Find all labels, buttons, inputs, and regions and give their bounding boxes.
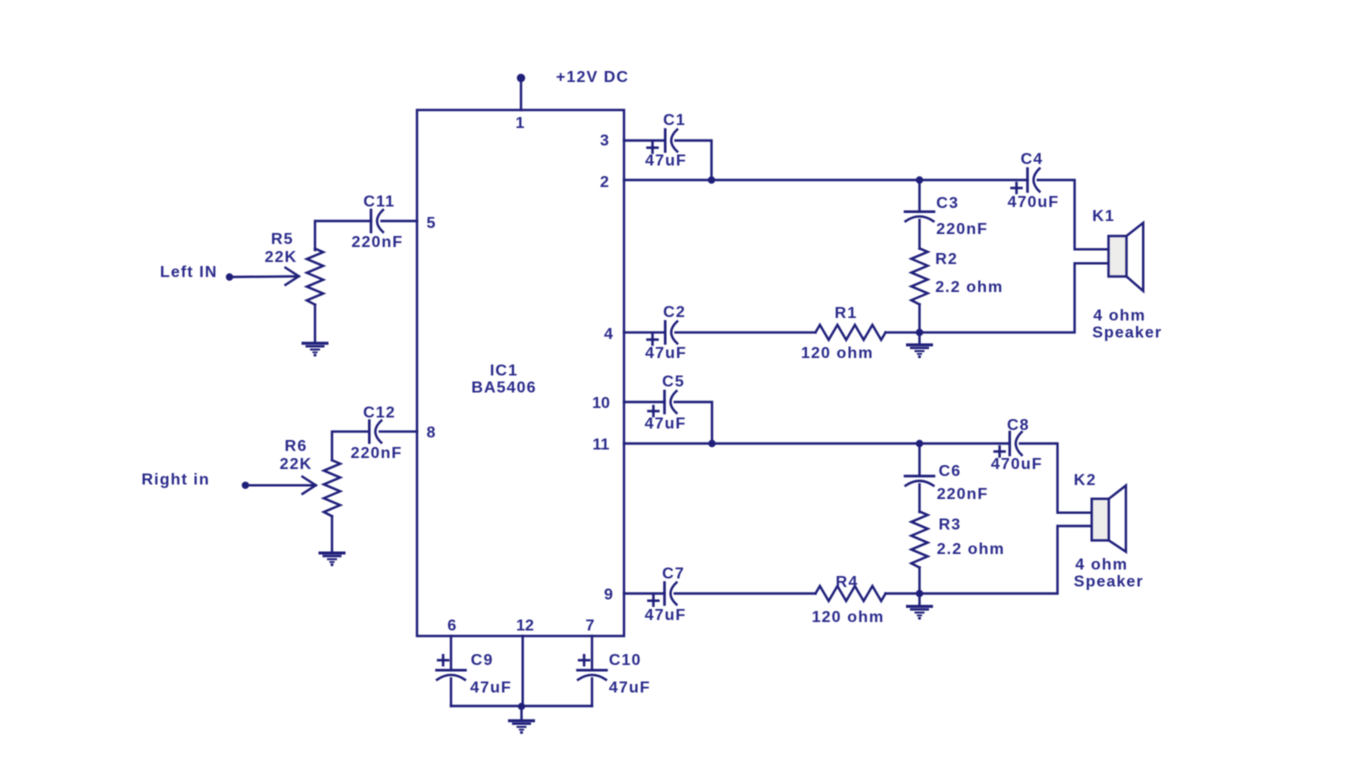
svg-text:11: 11	[593, 437, 610, 454]
wire node G to main ground	[520, 706, 522, 720]
wire C9 to ground bus	[450, 679, 452, 707]
svg-text:Right in: Right in	[142, 472, 210, 489]
svg-text:C5: C5	[662, 374, 685, 391]
svg-text:2.2 ohm: 2.2 ohm	[935, 279, 1003, 296]
capacitor C3 220nF	[905, 212, 934, 222]
resistor R6 22K	[324, 460, 340, 516]
svg-text:4 ohm: 4 ohm	[1093, 308, 1146, 325]
wire ground bus	[451, 705, 592, 707]
ground (main)	[508, 721, 535, 734]
capacitor C10 47uF	[578, 655, 607, 680]
svg-text:Speaker: Speaker	[1092, 325, 1162, 342]
wire R6 to ground	[331, 516, 333, 551]
svg-text:C12: C12	[363, 405, 396, 422]
svg-text:C6: C6	[939, 463, 962, 480]
svg-text:2: 2	[600, 174, 609, 191]
svg-text:22K: 22K	[265, 249, 298, 266]
arrowhead Right in	[303, 477, 316, 494]
svg-text:C2: C2	[663, 304, 686, 321]
wire R3 to node F	[918, 568, 920, 594]
svg-text:8: 8	[427, 425, 436, 442]
wire node B down to C3	[918, 180, 920, 212]
svg-text:R2: R2	[935, 251, 958, 268]
resistor R2 2.2 ohm	[911, 248, 927, 304]
svg-text:Speaker: Speaker	[1074, 574, 1144, 591]
wire pin4 from IC to C2	[624, 331, 665, 333]
wire C5 to node D	[675, 402, 712, 444]
svg-text:220nF: 220nF	[937, 486, 989, 503]
node F junction	[916, 590, 923, 597]
svg-text:10: 10	[592, 395, 610, 412]
wire Left IN arrow	[230, 275, 299, 278]
wire R2 to node C	[918, 304, 920, 332]
svg-text:47uF: 47uF	[645, 607, 687, 624]
svg-text:C9: C9	[471, 652, 494, 669]
svg-text:47uF: 47uF	[470, 680, 512, 697]
capacitor C7 47uF	[648, 583, 676, 606]
svg-text:C1: C1	[663, 112, 686, 129]
wire C10 to ground bus	[591, 679, 593, 707]
svg-text:K2: K2	[1074, 472, 1097, 489]
svg-text:22K: 22K	[280, 456, 313, 473]
arrowhead Left IN	[286, 268, 299, 285]
node E junction	[916, 440, 923, 447]
wire pin10 from IC to C5	[624, 401, 665, 403]
svg-text:R6: R6	[285, 438, 308, 455]
wire C8 to speaker K2 top terminal	[1020, 444, 1092, 513]
capacitor C4 470uF	[1012, 169, 1040, 194]
wire pin7 to C10	[591, 636, 593, 670]
node A junction	[708, 176, 715, 183]
svg-text:7: 7	[586, 618, 595, 635]
svg-text:C10: C10	[609, 652, 642, 669]
node C junction	[916, 329, 923, 336]
capacitor C2 47uF	[648, 321, 678, 344]
svg-text:4: 4	[604, 326, 613, 343]
svg-text:12: 12	[516, 618, 534, 635]
svg-text:3: 3	[600, 133, 609, 150]
ground (node C)	[906, 345, 933, 358]
wire C11 node to R5 top	[315, 221, 371, 250]
wire C1 to node A	[676, 141, 712, 181]
svg-text:R5: R5	[271, 231, 294, 248]
svg-text:C7: C7	[662, 566, 685, 583]
wire R4 to speaker K2 bottom terminal	[886, 526, 1092, 594]
svg-text:120 ohm: 120 ohm	[801, 345, 874, 362]
svg-text:6: 6	[447, 618, 456, 635]
wire C4 to speaker K1 top terminal	[1038, 180, 1109, 249]
svg-text:C4: C4	[1021, 151, 1044, 168]
wire pin2 bus	[624, 179, 1028, 181]
capacitor C11 220nF	[371, 210, 383, 232]
resistor R1 120 ohm	[816, 325, 886, 340]
svg-text:470uF: 470uF	[1008, 194, 1060, 211]
ground (R5)	[302, 343, 329, 356]
capacitor C5 47uF	[648, 391, 676, 416]
speaker K1	[1109, 223, 1144, 291]
wire C7 to R4	[675, 592, 816, 594]
svg-text:47uF: 47uF	[645, 345, 687, 362]
svg-text:2.2 ohm: 2.2 ohm	[937, 541, 1005, 558]
Left IN input node	[226, 273, 233, 280]
svg-text:Left IN: Left IN	[160, 264, 217, 281]
svg-text:47uF: 47uF	[645, 416, 687, 433]
svg-text:R4: R4	[836, 574, 859, 591]
wire R1 to speaker K1 bottom terminal	[886, 263, 1109, 332]
node G junction	[518, 703, 525, 710]
svg-text:220nF: 220nF	[351, 445, 403, 462]
wire C12 to pin8	[380, 430, 417, 432]
wire node F to ground	[918, 594, 920, 606]
+12V DC supply node	[517, 74, 525, 82]
svg-text:K1: K1	[1092, 208, 1115, 225]
capacitor C9 47uF	[437, 655, 466, 680]
svg-text:+12V DC: +12V DC	[556, 69, 629, 86]
svg-text:220nF: 220nF	[936, 221, 988, 238]
svg-text:9: 9	[604, 587, 613, 604]
wire C3 to R2	[918, 220, 920, 249]
capacitor C12 220nF	[369, 421, 381, 443]
svg-text:470uF: 470uF	[991, 456, 1043, 473]
wire node E down to C6	[918, 444, 920, 477]
wire pin9 from IC to C7	[624, 592, 665, 594]
node D junction	[708, 440, 715, 447]
svg-text:R3: R3	[939, 517, 962, 534]
wire pin12 to ground bus	[522, 636, 524, 706]
wire R5 to ground	[314, 305, 316, 342]
wire C12 node to R6 top	[332, 432, 369, 460]
wire Right in arrow	[245, 484, 315, 486]
wire pin6 to C9	[450, 636, 452, 670]
wire node C to ground	[918, 332, 920, 343]
svg-text:220nF: 220nF	[352, 234, 404, 251]
svg-text:C3: C3	[936, 195, 959, 212]
capacitor C8 470uF	[995, 432, 1022, 457]
svg-text:47uF: 47uF	[609, 680, 651, 697]
Right in input node	[242, 482, 249, 489]
ground (R6)	[319, 553, 346, 566]
wire pin11 bus	[624, 442, 1010, 444]
svg-text:1: 1	[516, 115, 525, 132]
svg-text:R1: R1	[835, 305, 858, 322]
svg-text:47uF: 47uF	[645, 153, 687, 170]
capacitor C6 220nF	[905, 476, 934, 486]
ground (node F)	[906, 606, 933, 619]
svg-text:120 ohm: 120 ohm	[812, 609, 885, 626]
wire C6 to R3	[918, 484, 920, 512]
node B junction	[916, 176, 923, 183]
svg-text:IC1: IC1	[490, 363, 518, 380]
resistor R5 22K	[307, 249, 323, 305]
capacitor C1 47uF	[648, 130, 678, 153]
resistor R4 120 ohm	[816, 586, 886, 601]
svg-text:C11: C11	[363, 194, 395, 211]
wire C11 to pin5	[382, 220, 418, 222]
svg-text:BA5406: BA5406	[471, 380, 536, 397]
wire pin3 from IC to C1	[624, 139, 665, 141]
svg-text:4 ohm: 4 ohm	[1075, 557, 1128, 574]
wire pin1 to +12V	[520, 78, 522, 110]
IC IC1 BA5406 box	[417, 110, 624, 636]
speaker K2	[1092, 486, 1126, 552]
wire C2 to R1	[676, 331, 816, 333]
resistor R3 2.2 ohm	[911, 512, 927, 568]
svg-text:C8: C8	[1007, 417, 1030, 434]
svg-text:5: 5	[427, 215, 436, 232]
